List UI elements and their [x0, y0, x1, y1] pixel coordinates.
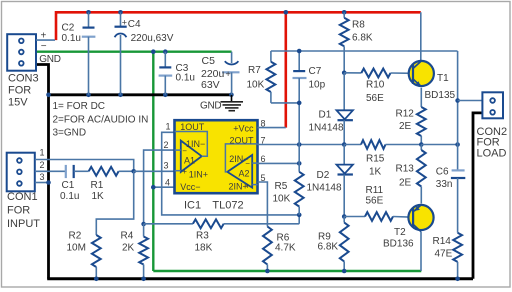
label C5 plus	[226, 69, 231, 79]
wire CON1 pin1	[35, 160, 134, 172]
capacitor C3	[159, 52, 173, 95]
op-amp A2 triangle	[225, 144, 257, 188]
svg-text:2: 2	[163, 140, 168, 150]
svg-text:FOR: FOR	[7, 205, 30, 217]
svg-text:1IN+: 1IN+	[189, 169, 208, 179]
svg-text:R8: R8	[352, 20, 365, 31]
svg-text:2K: 2K	[122, 243, 135, 254]
svg-text:1N4148: 1N4148	[307, 183, 342, 194]
svg-text:TL072: TL072	[212, 200, 243, 212]
svg-text:10M: 10M	[67, 243, 86, 254]
resistor R15	[344, 140, 421, 149]
label R7	[247, 65, 265, 91]
pin number 8	[261, 119, 266, 129]
label R13	[396, 164, 415, 189]
svg-text:C4: C4	[128, 19, 141, 30]
label C7	[309, 66, 326, 91]
junction R14 bottom	[455, 277, 460, 282]
wire CON1 pin2 to C1	[35, 170, 66, 172]
svg-text:D1: D1	[319, 110, 332, 121]
label A2	[239, 169, 250, 179]
svg-text:C5: C5	[202, 55, 216, 67]
connector CON3	[7, 34, 36, 70]
capacitor C2	[82, 12, 96, 95]
wire black bottom rail	[47, 277, 473, 280]
wire top feedback row	[271, 50, 458, 52]
svg-text:10K: 10K	[273, 194, 291, 205]
op-amp IC1 body	[175, 120, 258, 193]
svg-text:6.8K: 6.8K	[352, 32, 373, 43]
wire pin2 to R4	[144, 150, 175, 224]
svg-text:C1: C1	[62, 180, 75, 191]
svg-text:R12: R12	[396, 109, 415, 120]
svg-text:0.1u: 0.1u	[176, 73, 195, 84]
label R2	[67, 231, 86, 254]
svg-text:R1: R1	[91, 180, 104, 191]
svg-text:6.8K: 6.8K	[318, 241, 339, 252]
junction C4 on black row	[118, 93, 123, 98]
svg-text:3: 3	[39, 172, 44, 182]
svg-text:4.7K: 4.7K	[275, 243, 296, 254]
resistor R14	[453, 233, 462, 279]
wire CON1 pin3 to black	[35, 182, 49, 184]
wire CON3 pin3 black	[36, 65, 49, 279]
resistor R10	[344, 69, 413, 78]
label CON1 pin3	[39, 172, 44, 182]
junction diode mid	[342, 142, 347, 147]
wire input node to pin3	[134, 170, 175, 172]
svg-text:2=FOR AC/AUDIO IN: 2=FOR AC/AUDIO IN	[53, 114, 149, 125]
capacitor C4	[115, 12, 127, 95]
label 2OUT	[229, 136, 254, 146]
svg-text:+Vcc: +Vcc	[233, 123, 254, 133]
label R3	[195, 231, 213, 254]
label R5	[273, 181, 291, 205]
label D1	[309, 110, 344, 134]
label CON1	[7, 191, 40, 230]
svg-text:2IN+: 2IN+	[229, 182, 248, 192]
label R15	[366, 154, 385, 178]
label D2	[307, 170, 342, 194]
svg-text:R3: R3	[196, 231, 209, 242]
junction black row left	[46, 93, 51, 98]
svg-text:−: −	[41, 41, 47, 52]
label CON3 minus	[41, 41, 47, 52]
svg-text:56E: 56E	[366, 195, 384, 206]
label R9	[318, 232, 339, 253]
svg-text:1IN−: 1IN−	[186, 139, 205, 149]
svg-text:63V: 63V	[201, 79, 220, 91]
label 2IN-	[229, 154, 248, 164]
label C4	[128, 19, 174, 44]
resistor R6	[263, 227, 272, 272]
svg-text:1: 1	[39, 148, 44, 158]
wire pin7 row	[258, 144, 345, 146]
svg-text:1K: 1K	[92, 191, 105, 202]
svg-text:33n: 33n	[436, 179, 453, 190]
label 1IN-	[186, 139, 205, 149]
transistor T2	[408, 205, 433, 232]
label IC1 TL072	[184, 200, 244, 212]
junction on red rail at R8	[342, 10, 347, 15]
label R8	[352, 20, 373, 44]
junction output at R12	[419, 142, 424, 147]
pin number 2	[163, 140, 168, 150]
note text	[53, 101, 149, 138]
label C1	[60, 180, 79, 202]
pin number 7	[261, 135, 266, 145]
svg-text:220u: 220u	[201, 68, 225, 80]
junction C2 on black row	[86, 93, 91, 98]
capacitor C5	[222, 52, 240, 95]
wire T2 collector	[420, 232, 422, 271]
svg-text:4: 4	[165, 177, 170, 187]
wire CON3 plus stub	[36, 39, 55, 41]
svg-text:3: 3	[163, 161, 168, 171]
label R11	[366, 185, 384, 206]
svg-text:T2: T2	[394, 227, 406, 238]
svg-text:220u,63V: 220u,63V	[131, 33, 174, 44]
wire output row	[421, 144, 457, 146]
label A2 plus	[245, 181, 250, 190]
diode D1	[337, 73, 353, 145]
label A1	[184, 156, 195, 166]
label CON3	[8, 72, 39, 108]
resistor R1	[89, 167, 134, 176]
svg-text:R4: R4	[121, 231, 134, 242]
junction pin7 at R5	[297, 142, 302, 147]
resistor R4	[139, 224, 148, 279]
label C5	[201, 55, 225, 91]
junction R4 top	[141, 222, 146, 227]
svg-text:56E: 56E	[366, 93, 384, 104]
junction R4 bottom	[141, 277, 146, 282]
label +Vcc	[233, 123, 254, 133]
svg-text:IC1: IC1	[184, 200, 201, 212]
svg-text:GND: GND	[39, 54, 60, 65]
wire pin5 to R6	[258, 182, 268, 227]
wire to CON2	[458, 100, 483, 102]
pin number 5	[261, 173, 266, 183]
junction R6 bottom	[265, 269, 270, 274]
svg-text:A2: A2	[239, 169, 250, 179]
svg-text:BD135: BD135	[425, 90, 456, 101]
wire green bottom rail	[153, 270, 421, 272]
svg-text:1= FOR DC: 1= FOR DC	[53, 101, 106, 112]
svg-text:2E: 2E	[399, 121, 412, 132]
label C6	[436, 166, 453, 190]
junction on red rail at C4	[118, 10, 123, 15]
junction output at C6	[455, 142, 460, 147]
wire input node down to R2	[96, 171, 133, 235]
wire 1OUT feedback	[162, 132, 300, 215]
junction C7 top	[297, 49, 302, 54]
junction CON2 tap	[455, 98, 460, 103]
svg-text:1OUT: 1OUT	[180, 122, 205, 132]
svg-text:CON3: CON3	[8, 72, 39, 84]
svg-text:R13: R13	[396, 164, 415, 175]
resistor R2	[92, 235, 101, 279]
svg-text:+: +	[122, 17, 127, 27]
svg-text:1: 1	[165, 122, 170, 132]
diode D2	[337, 145, 353, 217]
capacitor C6	[451, 145, 465, 233]
pin number 1	[165, 122, 170, 132]
svg-text:1N4148: 1N4148	[309, 123, 344, 134]
junction C3 on black row	[163, 93, 168, 98]
pin number 3	[163, 161, 168, 171]
label R6	[275, 233, 296, 254]
pin number 4	[165, 177, 170, 187]
svg-text:GND: GND	[200, 101, 221, 112]
svg-text:2IN−: 2IN−	[229, 154, 248, 164]
svg-text:3=GND: 3=GND	[53, 128, 87, 139]
svg-text:T1: T1	[437, 73, 449, 84]
resistor R7	[267, 51, 300, 103]
svg-text:10K: 10K	[247, 79, 265, 90]
junction D2 bottom	[342, 214, 347, 219]
op-amp A1 triangle	[175, 132, 208, 172]
wire black ground row	[49, 93, 232, 96]
label CON1 pin2	[39, 160, 44, 170]
svg-text:R2: R2	[69, 231, 82, 242]
svg-text:R5: R5	[275, 181, 288, 192]
svg-text:C6: C6	[436, 166, 449, 177]
junction on red rail at pin8 drop	[284, 10, 289, 15]
svg-text:A1: A1	[184, 156, 195, 166]
svg-text:R14: R14	[433, 236, 452, 247]
label A1 plus	[182, 167, 187, 176]
svg-text:FOR: FOR	[8, 84, 31, 96]
label R14	[433, 236, 453, 259]
junction C7 bottom	[297, 101, 302, 106]
transistor T1	[409, 61, 434, 87]
junction R9 bottom	[342, 269, 347, 274]
capacitor C1	[66, 165, 89, 178]
svg-text:0.1u: 0.1u	[60, 191, 79, 202]
resistor R11	[344, 212, 413, 221]
junction CON1 pin3	[46, 180, 51, 185]
wire pin4 to green	[153, 186, 174, 188]
svg-text:2: 2	[39, 160, 44, 170]
svg-text:2OUT: 2OUT	[229, 136, 254, 146]
wire pin6 stub	[258, 162, 300, 164]
resistor R5	[295, 145, 304, 215]
label Vcc-	[180, 182, 200, 192]
svg-text:10p: 10p	[309, 80, 326, 91]
node input junction	[131, 169, 136, 174]
label R1	[91, 180, 105, 202]
junction C5 GND node	[229, 93, 234, 98]
label T2	[383, 227, 414, 250]
label T1	[425, 73, 456, 101]
label A2 minus	[245, 159, 250, 168]
resistor R9	[340, 217, 349, 272]
junction on red rail at C2	[86, 10, 91, 15]
connector CON1	[7, 153, 35, 192]
connector CON2	[482, 92, 503, 118]
label C3	[176, 63, 195, 84]
resistor R12	[417, 88, 426, 145]
label R4	[121, 231, 135, 254]
svg-text:R15: R15	[366, 154, 385, 165]
resistor R3	[144, 215, 300, 228]
wire green vertical	[152, 52, 154, 271]
wire +Vcc red drop to pin 8	[284, 12, 287, 127]
svg-text:Vcc−: Vcc−	[180, 182, 200, 192]
label R12	[396, 109, 415, 132]
junction green at C3	[163, 49, 168, 54]
label 1IN+	[189, 169, 208, 179]
capacitor C7	[293, 51, 307, 145]
svg-text:INPUT: INPUT	[7, 218, 40, 230]
wire output riser	[457, 51, 459, 145]
svg-text:BD136: BD136	[383, 238, 414, 249]
junction green T	[151, 49, 156, 54]
pin number 6	[261, 154, 266, 164]
label GND near C5	[200, 101, 221, 112]
label CON1 pin1	[39, 148, 44, 158]
svg-text:47E: 47E	[435, 248, 453, 259]
svg-text:1K: 1K	[369, 167, 382, 178]
resistor R13	[417, 145, 426, 204]
wire T1 collector	[420, 12, 422, 62]
svg-text:+: +	[182, 167, 187, 176]
wire ground green rail	[36, 51, 232, 53]
svg-text:6: 6	[261, 154, 266, 164]
label CON3 plus	[41, 31, 47, 42]
svg-text:0.1u: 0.1u	[62, 33, 81, 44]
svg-text:R7: R7	[248, 65, 261, 76]
junction pin6 R5	[297, 161, 302, 166]
wire black right riser to CON2	[473, 113, 482, 279]
label A1 minus	[182, 146, 187, 155]
svg-text:D2: D2	[317, 170, 330, 181]
ground symbol GND	[221, 95, 244, 111]
junction R8 bottom	[342, 71, 347, 76]
svg-text:C7: C7	[309, 66, 322, 77]
svg-text:18K: 18K	[195, 243, 213, 254]
junction feedback node	[297, 213, 302, 218]
label 1OUT	[180, 122, 205, 132]
svg-text:2E: 2E	[399, 177, 412, 188]
junction pin4 green	[151, 185, 156, 190]
svg-text:LOAD: LOAD	[477, 147, 507, 159]
label 2IN+	[229, 182, 248, 192]
svg-text:R10: R10	[366, 80, 385, 91]
wire +15V red rail	[56, 11, 421, 40]
svg-text:CON1: CON1	[7, 191, 38, 203]
label C2	[62, 23, 81, 44]
svg-text:15V: 15V	[8, 96, 28, 108]
label C4 plus	[122, 17, 127, 27]
label R10	[366, 80, 385, 105]
label GND near CON3	[39, 54, 60, 65]
wire pin8 stub	[258, 127, 286, 129]
svg-text:+: +	[226, 69, 231, 79]
label CON2	[477, 126, 508, 160]
resistor R8	[340, 12, 349, 73]
junction R2 bottom	[94, 277, 99, 282]
